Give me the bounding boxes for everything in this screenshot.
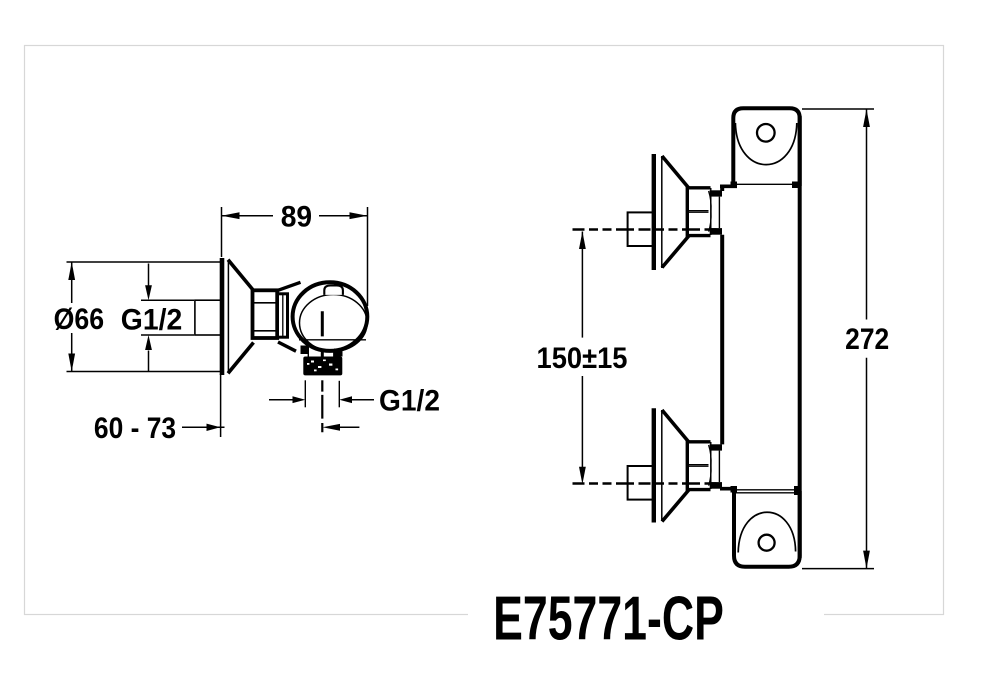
wall nipple G1/2 [195,300,222,335]
svg-text:E75771-CP: E75771-CP [493,584,724,653]
bottom inlet nut [687,442,711,490]
top mounting ear [733,108,799,186]
body (side view circle) [293,282,368,351]
svg-text:G1/2: G1/2 [121,304,182,337]
body column [720,116,800,558]
title E75771-CP [493,584,724,653]
collar slants [278,282,301,351]
knurled hose connector [303,357,342,376]
escutcheon flange rim (side view) [222,258,254,375]
top inlet washer [710,190,722,234]
dim 150±15 [537,232,628,485]
svg-text:G1/2: G1/2 [379,385,440,418]
svg-text:60 - 73: 60 - 73 [94,410,176,444]
bottom inlet pipe [628,466,654,500]
bottom mounting ear [734,491,800,567]
dim G1/2 bottom [269,380,440,417]
hex nut (side view) [253,290,278,338]
bottom inlet centre line [573,482,720,485]
centre line through body [321,311,324,432]
dim 60-73 [94,374,359,444]
dim 272 [802,109,889,569]
dim Ø66 [54,262,220,372]
frame border [25,46,944,619]
svg-text:89: 89 [281,201,312,234]
top inlet centre line [573,228,720,231]
outlet neck [301,346,343,358]
top inlet nut [687,188,711,236]
top inlet escutcheon [654,154,690,270]
bottom inlet washer [710,444,722,488]
svg-text:150±15: 150±15 [537,342,628,375]
svg-text:272: 272 [845,321,889,355]
bottom inlet escutcheon [654,408,690,522]
top inlet pipe [628,212,654,246]
svg-text:Ø66: Ø66 [54,302,104,336]
washer [278,294,288,337]
dim G1/2 left [121,264,194,372]
dim 89 [222,201,368,306]
